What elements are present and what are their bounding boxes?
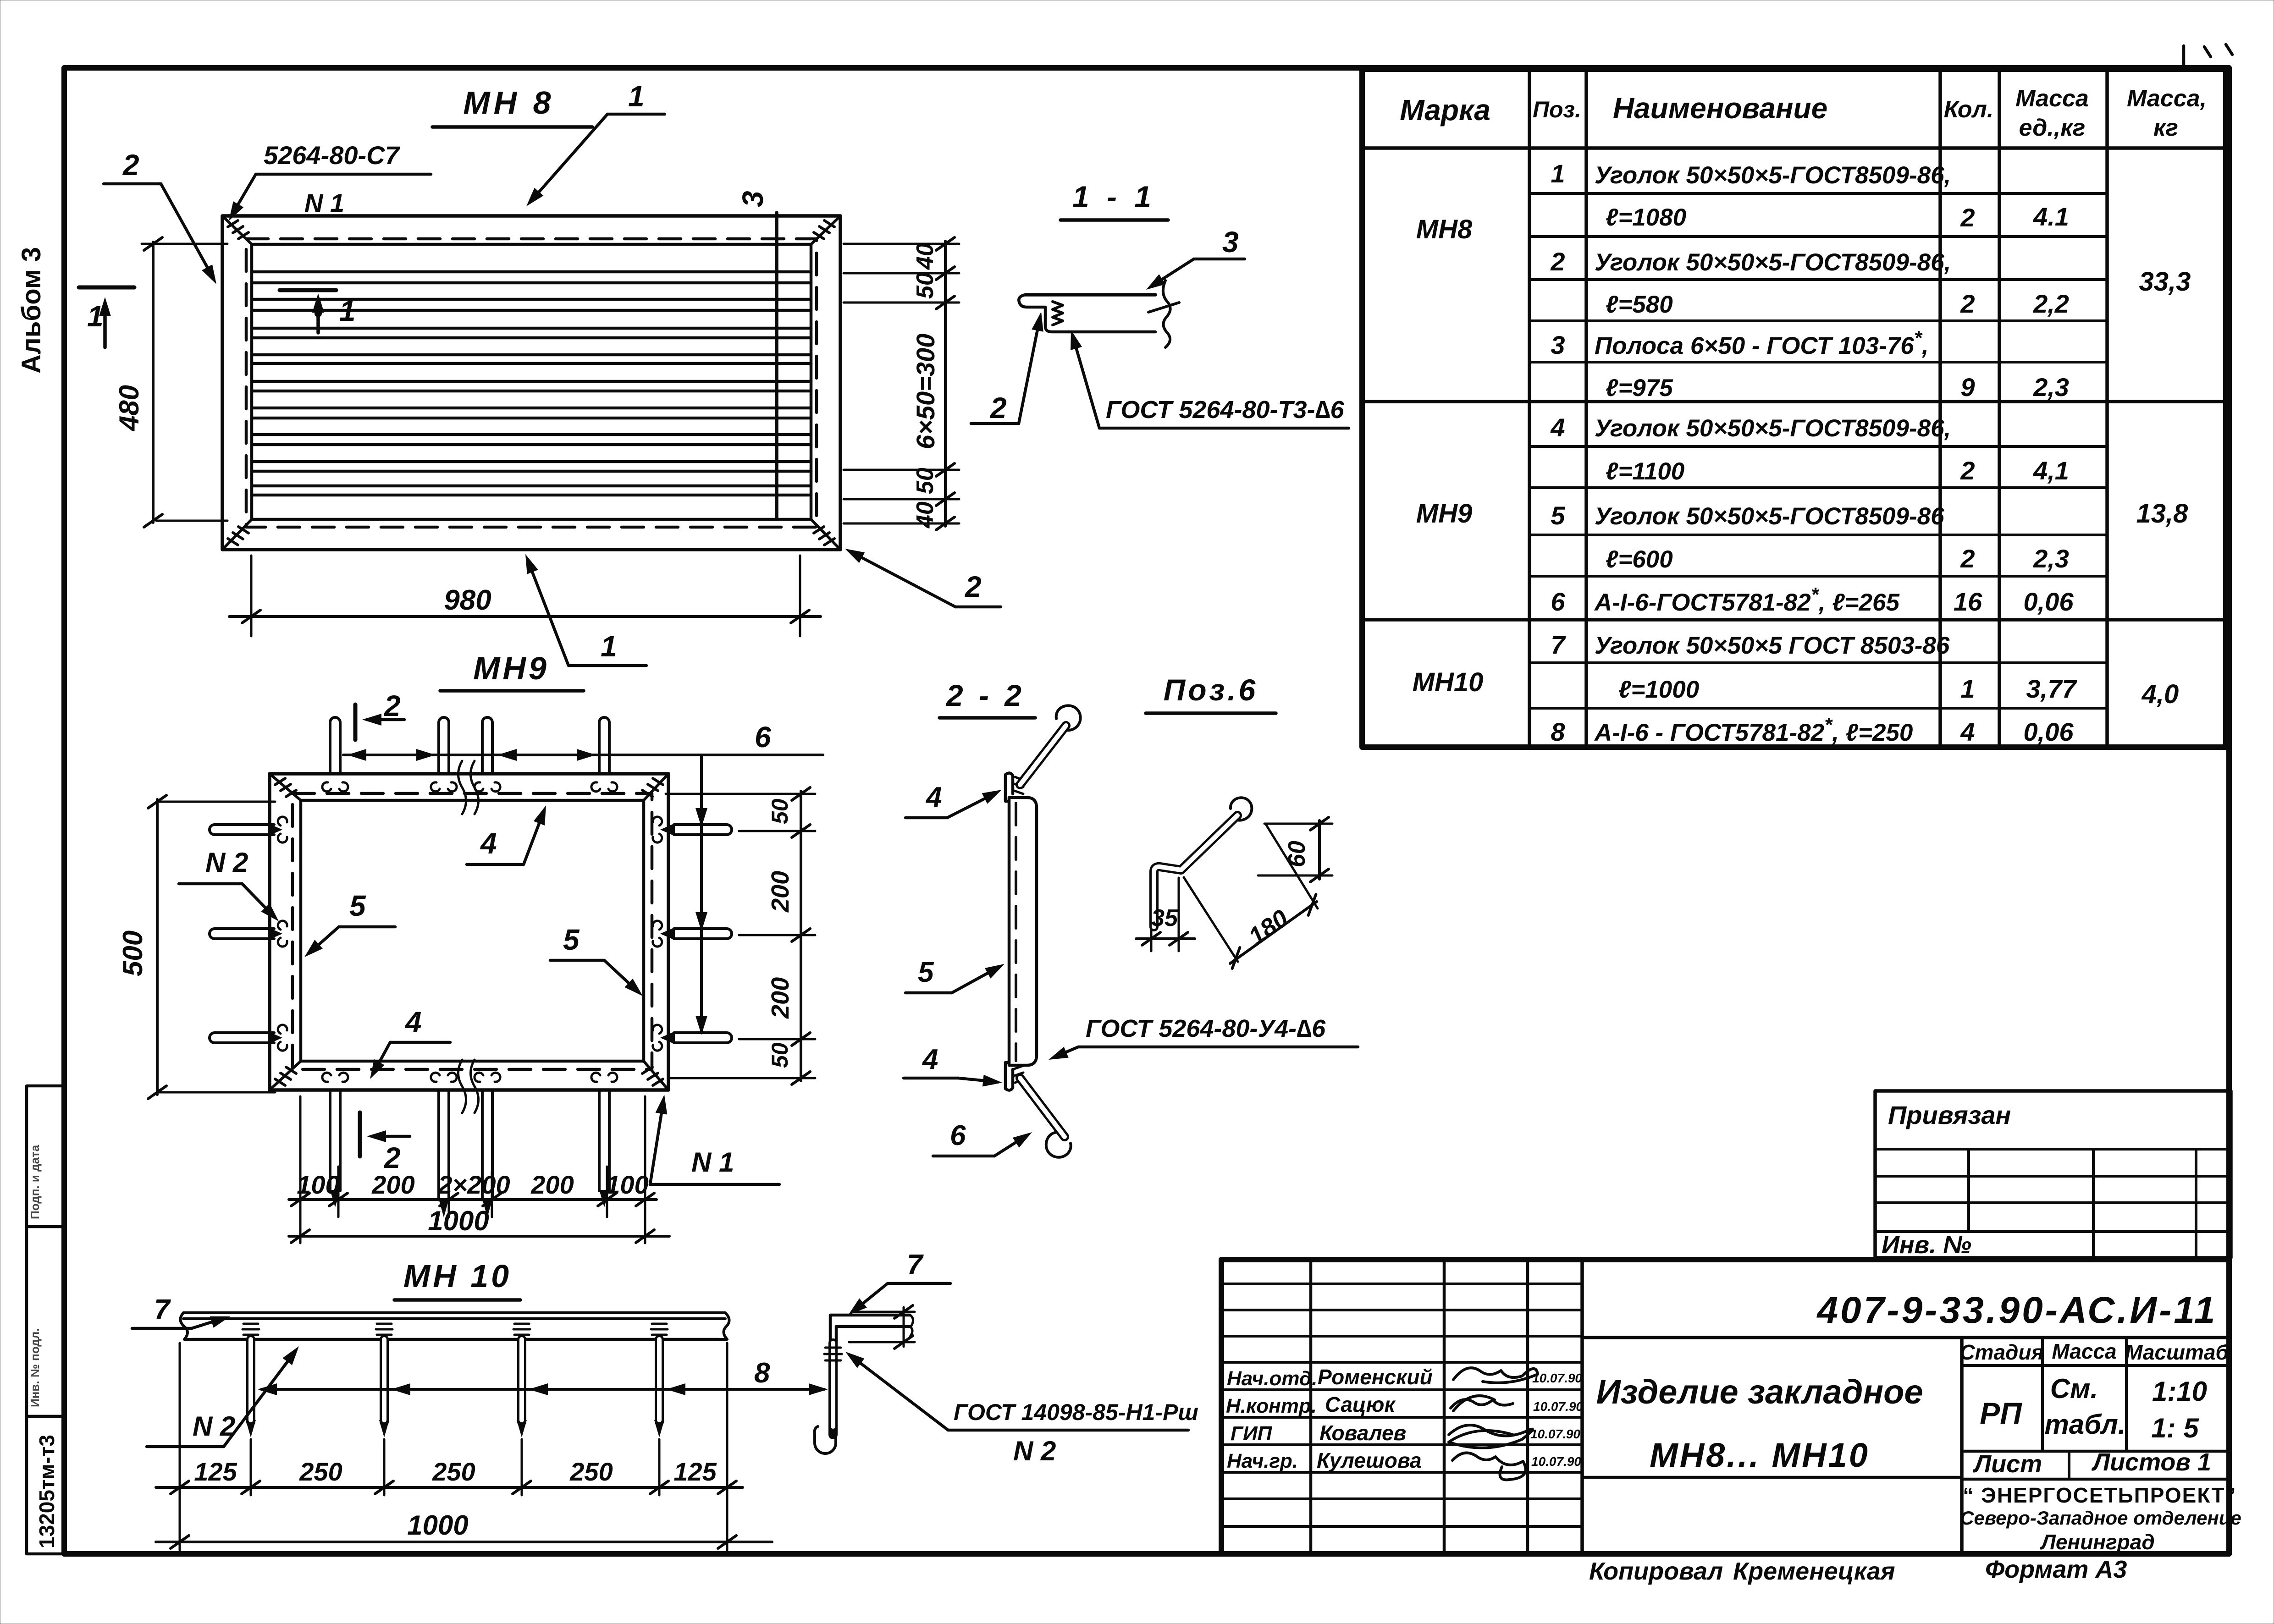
svg-text:Северо-Западное отделение: Северо-Западное отделение [1960, 1507, 2241, 1529]
svg-text:РП: РП [1980, 1396, 2022, 1430]
frame outer rect [222, 216, 840, 550]
mitre corner bottom-right [642, 1061, 668, 1090]
DRAW-MH9 [117, 650, 823, 1243]
right dims 50-200-200-50 extension lines [666, 794, 815, 1078]
section stud threads [824, 1348, 842, 1360]
svg-text:ГОСТ 14098-85-Н1-Рш: ГОСТ 14098-85-Н1-Рш [954, 1399, 1198, 1425]
strip bar outline [1009, 798, 1037, 1065]
bottom dim line 1 [289, 1198, 657, 1201]
name cell bottom line [1582, 1476, 1962, 1479]
MH10 dims extension lines [180, 1343, 727, 1550]
svg-text:ℓ=1000: ℓ=1000 [1618, 676, 1699, 703]
svg-text:Копировал: Копировал [1589, 1558, 1723, 1585]
privyazan columns [1969, 1149, 2196, 1258]
svg-text:16: 16 [1954, 587, 1982, 616]
bottom dims extension lines [300, 1096, 645, 1243]
bottom stud 4 [599, 1090, 609, 1191]
stud 3 [517, 1339, 526, 1422]
svg-text:1: 1 [1551, 159, 1565, 188]
svg-text:50: 50 [767, 798, 793, 824]
svg-text:5: 5 [349, 889, 366, 922]
svg-text:ГИП: ГИП [1231, 1422, 1273, 1445]
svg-text:3: 3 [736, 191, 769, 207]
svg-text:ГОСТ 5264-80-Т3-∆6: ГОСТ 5264-80-Т3-∆6 [1106, 396, 1345, 424]
svg-text:Кременецкая: Кременецкая [1733, 1558, 1895, 1585]
svg-text:3: 3 [1222, 226, 1239, 259]
svg-text:250: 250 [432, 1457, 475, 1486]
angle profile lip and leg [1019, 295, 1068, 332]
dim line 125-250 row [156, 1486, 743, 1489]
break squiggle [1163, 281, 1170, 347]
svg-text:1 - 1: 1 - 1 [1072, 180, 1156, 214]
svg-text:100: 100 [297, 1170, 339, 1199]
svg-text:ℓ=600: ℓ=600 [1606, 546, 1673, 573]
svg-text:Листов 1: Листов 1 [2091, 1448, 2211, 1476]
svg-text:200: 200 [530, 1170, 574, 1199]
svg-text:ℓ=580: ℓ=580 [1606, 291, 1673, 318]
section separator MH8/MH9 [1362, 400, 2226, 403]
bottom stud 2 [439, 1090, 449, 1200]
svg-text:Кол.: Кол. [1944, 96, 1994, 123]
left margin stamp box 1 [27, 1086, 64, 1227]
svg-text:А-I-6 - ГОСТ5781-82*, ℓ=250: А-I-6 - ГОСТ5781-82*, ℓ=250 [1594, 714, 1913, 746]
stud 4 threads [651, 1324, 668, 1335]
svg-text:Масштаб: Масштаб [2125, 1340, 2229, 1364]
signature 2 [1451, 1396, 1513, 1411]
svg-text:4: 4 [922, 1044, 938, 1075]
privyazan box [1875, 1091, 2231, 1258]
PARTS-TABLE [1362, 69, 2226, 747]
svg-text:Привязан: Привязан [1888, 1101, 2011, 1129]
svg-text:1: 1 [1960, 674, 1975, 703]
svg-text:Масса,: Масса, [2127, 85, 2207, 112]
section angle piece [830, 1315, 910, 1343]
title underline [939, 716, 1035, 720]
TITLE-BLOCK [1221, 1091, 2241, 1585]
right stud 1 [674, 825, 732, 835]
svg-text:Стадия: Стадия [1959, 1340, 2043, 1364]
anchor hooks top band [322, 782, 348, 792]
svg-text:Подп. и дата: Подп. и дата [28, 1145, 42, 1219]
section mark 1 inner [280, 288, 336, 292]
svg-text:Поз.6: Поз.6 [1164, 673, 1258, 707]
right stud 3 [674, 1033, 732, 1043]
dim line 1000 [156, 1541, 772, 1543]
top stud 4 [599, 717, 609, 774]
table column lines [1529, 69, 2107, 747]
svg-text:0,06: 0,06 [2024, 717, 2074, 746]
svg-text:1:10: 1:10 [2152, 1376, 2207, 1407]
svg-text:2: 2 [1960, 203, 1975, 232]
svg-text:10.07.90: 10.07.90 [1531, 1454, 1581, 1469]
svg-text:200: 200 [371, 1170, 414, 1199]
svg-text:1: 1 [339, 294, 356, 327]
stamp verticals left zone [1311, 1260, 1528, 1554]
dim 500 extension lines [160, 802, 275, 1092]
right zone header line [1962, 1364, 2229, 1367]
dim 980 extension lines [251, 556, 800, 636]
svg-text:Сацюк: Сацюк [1325, 1393, 1396, 1416]
bottom stud 3 [482, 1090, 492, 1200]
signature 3 [1449, 1425, 1533, 1448]
top stud 2 [439, 717, 449, 774]
main stamp outer [1221, 1260, 2229, 1554]
title underline [432, 125, 592, 129]
frame hidden dashed rect [293, 793, 652, 1069]
svg-text:N 2: N 2 [1013, 1436, 1056, 1466]
svg-text:7: 7 [154, 1294, 171, 1326]
mitre corner bottom-left [270, 1061, 301, 1090]
svg-text:6: 6 [755, 721, 771, 754]
dim 980 line [229, 615, 821, 618]
title underline [440, 689, 584, 693]
svg-text:4: 4 [925, 782, 942, 813]
dim 480 line [152, 242, 155, 523]
mitre corner bottom-left [222, 519, 252, 550]
svg-text:4.1: 4.1 [2033, 202, 2069, 231]
svg-text:Кулешова: Кулешова [1317, 1448, 1422, 1472]
svg-text:10.07.90: 10.07.90 [1530, 1427, 1580, 1441]
right dims line [944, 241, 947, 526]
table outer [1362, 69, 2226, 747]
bent hook bar [1154, 815, 1237, 927]
top stud 1 [330, 717, 340, 774]
svg-text:МН 8: МН 8 [463, 85, 554, 121]
svg-text:125: 125 [194, 1457, 237, 1486]
svg-text:Поз.: Поз. [1533, 97, 1581, 122]
svg-text:Нач.отд.: Нач.отд. [1227, 1367, 1317, 1390]
break mark top band [458, 761, 479, 814]
left stud 1 [210, 825, 274, 835]
svg-text:Марка: Марка [1400, 94, 1490, 127]
section mark 1 left [79, 286, 134, 290]
SECTION-2-2 [904, 678, 1358, 1157]
left margin stamp box 3 [27, 1416, 64, 1554]
right dims extension lines [844, 244, 959, 523]
svg-text:125: 125 [673, 1457, 717, 1486]
section angle end curls [910, 1315, 913, 1337]
svg-text:МН8: МН8 [1416, 215, 1473, 244]
svg-text:200: 200 [767, 871, 794, 913]
svg-text:180: 180 [1243, 904, 1293, 951]
svg-text:500: 500 [117, 930, 148, 976]
bottom weld marks [1014, 1066, 1023, 1083]
stamp left zone rows [1221, 1284, 1582, 1526]
frame hidden dashed rect [246, 239, 817, 527]
svg-text:9: 9 [1960, 373, 1975, 402]
svg-text:2×200: 2×200 [437, 1170, 510, 1199]
svg-text:См.: См. [2050, 1373, 2098, 1404]
svg-text:10.07.90: 10.07.90 [1532, 1371, 1582, 1385]
section mark 2 bottom [358, 1112, 362, 1156]
svg-text:250: 250 [299, 1457, 342, 1486]
anchor hooks left band [278, 817, 287, 842]
top angle toe [1005, 773, 1013, 801]
dim 60 line [1318, 820, 1321, 879]
section separator MH9/MH10 [1362, 618, 2226, 622]
frame outer rect [270, 774, 668, 1090]
stamp vertical name zone [1580, 1260, 1584, 1554]
svg-text:2: 2 [122, 149, 139, 182]
svg-text:Н.контр.: Н.контр. [1226, 1395, 1317, 1417]
left margin stamp box 2 [27, 1227, 64, 1416]
svg-text:2: 2 [965, 570, 982, 603]
top-right apostrophe marks [2204, 44, 2232, 57]
right zone row lines [1962, 1451, 2229, 1479]
svg-text:Формат А3: Формат А3 [1985, 1556, 2127, 1583]
svg-text:МН9: МН9 [1416, 499, 1472, 528]
mitre corner top-right [642, 774, 668, 800]
signature 4 [1452, 1453, 1526, 1480]
svg-text:ед.,кг: ед.,кг [2019, 115, 2086, 141]
svg-text:Уголок 50×50×5-ГОСТ8509-86: Уголок 50×50×5-ГОСТ8509-86 [1595, 503, 1944, 530]
doc number separator [1582, 1336, 2229, 1339]
row lines [1529, 193, 2107, 708]
svg-text:6: 6 [950, 1120, 966, 1151]
right dims line [800, 791, 802, 1081]
pos 6 dim line [343, 754, 823, 756]
svg-text:100: 100 [606, 1170, 648, 1199]
svg-text:Нач.гр.: Нач.гр. [1227, 1450, 1298, 1472]
svg-text:Масса: Масса [2015, 85, 2089, 112]
svg-text:2,3: 2,3 [2033, 373, 2069, 402]
svg-text:40: 40 [912, 243, 938, 270]
svg-text:1: 5: 1: 5 [2151, 1413, 2199, 1443]
top-right corner tick [2182, 46, 2186, 69]
svg-text:4: 4 [1960, 717, 1975, 746]
list divider [2068, 1451, 2070, 1479]
section small dim [849, 1307, 915, 1347]
svg-text:4: 4 [1550, 413, 1565, 442]
svg-text:35: 35 [1151, 905, 1178, 931]
svg-text:1: 1 [87, 300, 104, 333]
right stud 2 [674, 929, 732, 939]
DETAIL-POS6 [1136, 673, 1332, 969]
svg-text:5: 5 [563, 923, 580, 956]
svg-text:2 - 2: 2 - 2 [945, 678, 1025, 712]
svg-text:13,8: 13,8 [2136, 499, 2189, 528]
break mark bottom band [458, 1060, 479, 1113]
svg-text:N 2: N 2 [205, 847, 248, 878]
svg-text:2: 2 [384, 689, 401, 722]
svg-text:13205тм-т3: 13205тм-т3 [35, 1435, 59, 1548]
anchor hooks bottom band [322, 1073, 348, 1082]
svg-text:60: 60 [1284, 841, 1310, 867]
mitre corner top-left [270, 774, 301, 800]
svg-text:Инв. № подл.: Инв. № подл. [28, 1328, 42, 1407]
svg-text:5264-80-С7: 5264-80-С7 [264, 141, 401, 170]
svg-text:7: 7 [1551, 630, 1566, 659]
pos 6 drop line [700, 755, 703, 1031]
svg-text:250: 250 [569, 1457, 613, 1486]
svg-text:1000: 1000 [407, 1510, 468, 1541]
dim 8 line [261, 1388, 824, 1391]
svg-text:4: 4 [480, 827, 497, 860]
svg-text:5: 5 [918, 957, 934, 988]
svg-text:Инв. №: Инв. № [1882, 1231, 1971, 1259]
dim 180 line [1230, 902, 1317, 963]
section mark 2 top [353, 705, 358, 740]
svg-text:N 1: N 1 [304, 188, 344, 217]
svg-text:1000: 1000 [428, 1206, 489, 1236]
svg-text:2,3: 2,3 [2033, 544, 2069, 573]
svg-text:5: 5 [1551, 501, 1565, 530]
svg-text:Полоса 6×50 - ГОСТ 103-76*,: Полоса 6×50 - ГОСТ 103-76*, [1595, 327, 1929, 359]
strip bottom line [1068, 330, 1155, 334]
signature 1 [1453, 1368, 1538, 1383]
svg-text:Уголок 50×50×5-ГОСТ8509-86,: Уголок 50×50×5-ГОСТ8509-86, [1595, 162, 1951, 189]
frame inner rect [301, 800, 644, 1061]
svg-text:ℓ=975: ℓ=975 [1606, 374, 1673, 402]
svg-text:“ ЭНЕРГОСЕТЬПРОЕКТ”: “ ЭНЕРГОСЕТЬПРОЕКТ” [1963, 1483, 2236, 1507]
angle top edge double line [183, 1313, 725, 1319]
anchor hooks right band [653, 817, 662, 842]
svg-text:Лист: Лист [1972, 1450, 2042, 1478]
svg-text:МН10: МН10 [1413, 667, 1484, 697]
svg-text:200: 200 [767, 977, 794, 1019]
svg-text:40: 40 [912, 501, 938, 528]
svg-text:3: 3 [1551, 330, 1565, 359]
stud 2 threads [376, 1324, 392, 1335]
svg-text:2: 2 [990, 391, 1007, 424]
svg-text:8: 8 [1551, 717, 1565, 746]
top stud with hook [1020, 726, 1066, 785]
svg-text:1: 1 [601, 630, 617, 663]
svg-text:N 1: N 1 [691, 1147, 734, 1178]
bottom stud with hook [1020, 1078, 1065, 1137]
svg-text:Ленинград: Ленинград [2040, 1530, 2155, 1554]
dim 35 line [1136, 937, 1195, 940]
mitre corner top-left [222, 216, 252, 244]
svg-text:6×50=300: 6×50=300 [911, 334, 940, 449]
left break [180, 1313, 193, 1339]
title underline [1060, 218, 1168, 222]
section stud 8 [828, 1343, 838, 1435]
dim 35 extension lines [1151, 878, 1179, 951]
svg-text:кг: кг [2153, 115, 2178, 141]
svg-text:980: 980 [444, 584, 491, 616]
svg-text:407-9-33.90-АС.И-11: 407-9-33.90-АС.И-11 [1816, 1289, 2217, 1331]
svg-text:50: 50 [912, 272, 938, 299]
svg-text:50: 50 [912, 468, 938, 494]
DRAW-MH10 [132, 1249, 1198, 1550]
angle profile top line [1026, 293, 1155, 297]
svg-text:Наименование: Наименование [1613, 92, 1827, 125]
svg-text:Ковалев: Ковалев [1319, 1421, 1406, 1445]
svg-text:N 2: N 2 [193, 1411, 235, 1442]
svg-text:7: 7 [907, 1249, 924, 1281]
svg-text:А-I-6-ГОСТ5781-82*, ℓ=265: А-I-6-ГОСТ5781-82*, ℓ=265 [1594, 584, 1900, 616]
svg-text:2: 2 [1960, 289, 1975, 318]
SECTION-1-1 [971, 180, 1349, 428]
svg-text:Уголок 50×50×5 ГОСТ 8503-86: Уголок 50×50×5 ГОСТ 8503-86 [1595, 632, 1950, 659]
svg-text:6: 6 [1551, 587, 1565, 616]
svg-text:2: 2 [1960, 456, 1975, 485]
svg-text:4,0: 4,0 [2142, 679, 2179, 709]
svg-text:Уголок 50×50×5-ГОСТ8509-86,: Уголок 50×50×5-ГОСТ8509-86, [1595, 415, 1951, 442]
svg-text:50: 50 [767, 1042, 793, 1068]
slat strips [252, 272, 811, 495]
top weld marks [1014, 777, 1023, 794]
stamp vertical right zone [1960, 1338, 1964, 1554]
right break [719, 1313, 729, 1339]
left stud 2 [210, 929, 274, 939]
svg-text:2: 2 [1960, 544, 1975, 573]
stud 4 [655, 1339, 664, 1422]
svg-text:МН8... МН10: МН8... МН10 [1650, 1436, 1870, 1474]
svg-text:2,2: 2,2 [2033, 289, 2069, 318]
frame inner rect [252, 244, 811, 519]
title underline [1146, 711, 1276, 715]
cut tick [1148, 303, 1179, 312]
svg-text:1: 1 [628, 80, 645, 113]
svg-text:Роменский: Роменский [1318, 1365, 1433, 1389]
svg-text:ГОСТ 5264-80-У4-∆6: ГОСТ 5264-80-У4-∆6 [1086, 1015, 1326, 1042]
svg-text:10.07.90: 10.07.90 [1533, 1399, 1583, 1414]
dim 500 line [156, 799, 159, 1095]
svg-text:МН 10: МН 10 [403, 1258, 512, 1294]
svg-text:3,77: 3,77 [2026, 674, 2078, 703]
svg-text:2: 2 [384, 1141, 401, 1174]
left stud 3 [210, 1033, 274, 1043]
DRAW-MH8 [79, 80, 1001, 666]
dim 180 extension lines [1184, 825, 1318, 962]
privyazan rows [1875, 1149, 2231, 1232]
bottom angle toe [1005, 1062, 1013, 1090]
right zone verticals [2042, 1338, 2126, 1451]
stud 1 [246, 1339, 255, 1422]
svg-text:ℓ=1080: ℓ=1080 [1606, 204, 1686, 231]
table header line [1362, 146, 2226, 150]
stud 1 threads [243, 1324, 259, 1335]
svg-text:33,3: 33,3 [2139, 267, 2191, 297]
stud 3 threads [513, 1324, 530, 1335]
svg-text:табл.: табл. [2044, 1409, 2125, 1440]
svg-text:2: 2 [1550, 247, 1565, 276]
angle leg bottom edge [193, 1338, 719, 1341]
top stud 3 [482, 717, 492, 774]
svg-text:МН9: МН9 [473, 650, 549, 686]
bottom dim line 1000 [289, 1235, 669, 1238]
mitre corner bottom-right [811, 519, 840, 550]
svg-text:480: 480 [114, 385, 144, 431]
title underline [394, 1298, 520, 1302]
svg-text:Масса: Масса [2052, 1339, 2116, 1363]
svg-text:ℓ=1100: ℓ=1100 [1606, 458, 1684, 485]
dim 60 extension lines [1258, 824, 1332, 875]
weld zigzag [1053, 302, 1063, 325]
stud 2 [380, 1339, 389, 1422]
svg-text:Изделие закладное: Изделие закладное [1596, 1373, 1923, 1411]
mitre corner top-right [811, 216, 840, 244]
svg-text:4,1: 4,1 [2033, 456, 2069, 485]
svg-text:Альбом 3: Альбом 3 [17, 247, 46, 374]
strip bar dashed axis [1015, 803, 1017, 1061]
svg-text:0,06: 0,06 [2024, 587, 2074, 616]
svg-text:4: 4 [404, 1006, 422, 1039]
svg-text:Уголок 50×50×5-ГОСТ8509-86,: Уголок 50×50×5-ГОСТ8509-86, [1595, 249, 1951, 276]
dim 480 extension lines [142, 244, 227, 521]
svg-text:8: 8 [754, 1357, 770, 1389]
bottom stud 1 [330, 1090, 340, 1191]
